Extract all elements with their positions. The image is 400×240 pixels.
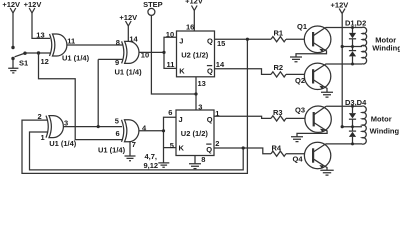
op-amp U1 gate 2 (XOR pins 8,9 -> 10) [115,41,143,76]
op-amp U1 gate 1 (XOR pins 13,12 -> 11) [50,34,90,63]
svg-text:9,12: 9,12 [144,161,159,170]
op-amp U1 gate 4 (XOR pins 5,6 -> 4) [98,120,139,155]
svg-text:1: 1 [41,133,45,142]
svg-text:U1 (1/4): U1 (1/4) [98,146,126,155]
+12V rail to winding taps [341,14,343,127]
flip-flop U2 (1/2) second half [176,110,214,156]
flip-flop U2 (1/2) first half [177,31,215,77]
resistor R3 [271,108,286,121]
svg-text:Motor: Motor [371,115,392,124]
svg-text:Q1: Q1 [297,22,307,31]
winding 2 center tap wire [342,126,362,128]
svg-text:6: 6 [116,129,120,138]
svg-text:Q: Q [207,115,213,124]
svg-text:K: K [179,66,185,75]
svg-text:11: 11 [167,60,175,69]
svg-text:5: 5 [170,141,174,150]
FF2 JK tie wires [164,117,177,163]
wire R4 to Q4 base [286,153,313,155]
wire Q3 collector to winding 2 top [326,105,362,107]
svg-text:R1: R1 [274,29,284,38]
junction D3 D4 cathode node [351,125,354,128]
svg-text:6: 6 [168,108,172,117]
junction FF2 Qbar to feedback [242,146,245,149]
ground Q4 emitter [320,170,333,175]
transistor Q3 [295,106,331,137]
svg-text:U1 (1/4): U1 (1/4) [49,139,77,148]
ground under S1 [8,59,18,73]
wire FF2 Qbar pin2 to R4 [214,148,271,154]
+12V supply 4 [185,0,203,31]
wire R2 to Q2 base [286,73,313,75]
wire +12V2 to gate1 pin13 [32,13,50,38]
svg-text:Q3: Q3 [295,106,305,115]
wire S1 net down to gate U1d input 6 [39,53,124,140]
wire gateA out to gateB pin5 [63,126,122,128]
ground Q1 emitter [290,57,302,62]
junction D3 anode node [351,105,354,108]
resistor R1 [271,29,286,42]
junction rail to winding 1 tap [341,45,344,48]
+12V supply 5 [331,1,349,14]
wire gate4 out to FF2 JK tie [139,130,164,132]
svg-text:8: 8 [116,38,120,47]
wire Q4 collector to winding 2 bottom [326,143,362,145]
wire FF2 Q pin1 to R3 [214,116,271,118]
wire Q1 collector to winding 1 top [326,27,362,29]
svg-text:+12V: +12V [331,1,349,10]
junction D1 D2 cathode node [351,45,354,48]
junction rail to winding 2 tap [341,125,344,128]
junction gate3 output to riser [97,125,100,128]
motor winding 2 [362,106,400,144]
wire R3 to Q3 base [286,117,314,119]
feedback wire FF1 Q to gate3 pin2 [22,39,247,173]
winding 1 center tap wire [342,46,362,48]
wire Q2 collector to winding 1 bottom [326,63,363,65]
svg-text:15: 15 [217,39,225,48]
pin 8 ground [189,155,205,169]
svg-text:D1,D2: D1,D2 [345,18,366,27]
wire S1 to gate1 pin12 [25,52,50,54]
junction FF1 Q to feedback [246,38,249,41]
svg-text:2: 2 [215,139,219,148]
svg-text:8: 8 [201,155,205,164]
ground Q3 emitter [291,137,303,142]
motor winding 1 [362,27,400,64]
svg-text:U2 (1/2): U2 (1/2) [181,51,209,60]
pin 13 wire FF1 clock [195,77,197,110]
FF1 JK tie wires [164,37,177,68]
transistor Q4 [293,142,331,170]
svg-text:J: J [179,115,183,124]
wire R1 to Q1 base [286,38,313,40]
svg-text:Q: Q [206,145,212,154]
svg-text:14: 14 [216,60,225,69]
svg-text:Winding: Winding [370,126,400,135]
svg-text:13: 13 [36,31,44,40]
transistor Q1 [296,22,331,57]
svg-text:U2 (1/2): U2 (1/2) [181,129,209,138]
STEP input [143,0,163,15]
wire FF1 Q pin15 to R1 [215,38,272,40]
svg-text:5: 5 [115,117,119,126]
svg-text:J: J [179,36,183,45]
node 12 junction [37,51,40,54]
svg-text:D3,D4: D3,D4 [345,98,367,107]
+12V supply 2 [24,0,42,13]
op-amp U1 gate 3 (XOR pins 2,1 -> 3) [46,116,77,148]
diode D3 [349,106,356,127]
svg-text:Winding: Winding [372,43,400,52]
svg-text:4,7,: 4,7, [145,152,158,161]
svg-text:+12V: +12V [2,0,20,9]
+12V supply 1 [2,0,20,46]
svg-text:13: 13 [198,79,206,88]
ground Q2 emitter [321,92,333,97]
svg-text:12: 12 [41,57,49,66]
junction FF2 JK tie to gate4 output [162,129,165,132]
svg-text:11: 11 [67,37,75,46]
svg-text:+12V: +12V [185,0,203,6]
svg-text:Q: Q [207,66,213,75]
svg-text:R2: R2 [274,63,284,72]
diode D2 [349,47,356,65]
diode D4 [349,127,356,144]
svg-text:Q2: Q2 [295,76,305,85]
svg-text:Q4: Q4 [293,154,304,163]
svg-text:K: K [179,144,185,153]
svg-text:+12V: +12V [119,13,137,22]
resistor R4 [271,144,286,157]
svg-text:R3: R3 [273,108,283,117]
svg-text:R4: R4 [272,144,282,153]
junction D1 anode node [351,26,354,29]
svg-text:Q: Q [207,36,213,45]
ground for pins 4,7,9,12 [144,152,170,170]
wire STEP to clocks [151,15,196,94]
svg-text:+12V: +12V [24,0,42,9]
+12V supply 3 [119,13,137,43]
wire riser gateA output to pin9 [97,59,99,126]
svg-text:U1 (1/4): U1 (1/4) [115,68,143,77]
pin 7 ground stub [125,140,136,161]
wire gate1 out to gate2 pin8 [67,44,123,46]
wire gate2 input 9 from riser [98,58,123,60]
transistor Q2 [295,63,331,92]
junction D4 anode node [351,142,354,145]
svg-text:STEP: STEP [143,0,163,9]
junction D2 anode node [351,63,354,66]
wire FF1 Qbar pin14 to R2 [215,69,272,75]
svg-text:3: 3 [64,118,68,127]
junction STEP to clock line [194,92,197,95]
diode D1 [349,28,356,47]
junction FF1 JK tie to gate2 output [162,51,165,54]
svg-text:U1 (1/4): U1 (1/4) [62,54,90,63]
svg-text:16: 16 [186,22,194,31]
svg-text:10: 10 [166,30,174,39]
svg-text:S1: S1 [19,59,28,68]
resistor R2 [271,63,286,77]
svg-text:1: 1 [215,109,219,118]
switch S1 [11,46,28,68]
svg-text:7: 7 [132,140,136,149]
feedback wire FF2 Qbar to gate3 pin1 [30,132,244,170]
wire gate2 out to FF1 JK tie [139,51,164,53]
